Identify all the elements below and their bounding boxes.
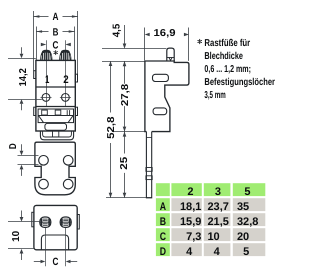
side slot upper [153, 74, 169, 81]
divider below screws [36, 106, 75, 108]
table row A [156, 198, 170, 211]
screw circle left [42, 94, 50, 102]
divider above screws [36, 86, 75, 88]
table row D [156, 243, 170, 256]
svg-text:,7: ,7 [220, 201, 229, 213]
plate outline [35, 142, 75, 195]
bottom view U cutout [41, 235, 68, 250]
svg-text:15: 15 [180, 216, 192, 228]
clamp diagonals [38, 115, 73, 123]
clamp band line [38, 115, 73, 117]
svg-text:2: 2 [63, 74, 68, 86]
svg-text:35: 35 [237, 201, 249, 213]
svg-text:C: C [160, 231, 166, 243]
extension line strip bottom [106, 197, 152, 199]
svg-text:C: C [52, 256, 58, 268]
bottom view tab left [32, 212, 34, 227]
plate hole bottom-left [39, 179, 49, 189]
svg-text:3,5 mm: 3,5 mm [204, 90, 225, 101]
svg-text:C: C [53, 40, 59, 52]
svg-text:2: 2 [187, 186, 193, 198]
extension line profile top [102, 61, 145, 63]
plate hole top-left [39, 156, 49, 166]
svg-text:1: 1 [45, 74, 49, 86]
svg-text:10: 10 [11, 230, 22, 242]
svg-text:,1: ,1 [192, 201, 201, 213]
clamp cushion [45, 123, 67, 130]
front tab left mid [34, 107, 36, 115]
dimension B [36, 27, 38, 61]
front tab right upper [75, 74, 77, 82]
dimension C top [41, 43, 47, 47]
table header row [156, 183, 170, 196]
dimension 25 [124, 132, 126, 154]
front tail notch [53, 131, 59, 137]
svg-text:18: 18 [180, 201, 192, 213]
svg-text:10: 10 [207, 231, 219, 243]
svg-text:4: 4 [214, 246, 221, 258]
latch foot right front [59, 50, 71, 61]
dimension A [33, 11, 35, 71]
clamp window mid [55, 110, 61, 115]
svg-text:A: A [160, 201, 166, 213]
front tail inner line [43, 131, 72, 137]
clamp inner rect [38, 109, 73, 123]
side slot lower [153, 108, 167, 115]
svg-text:0,6 ... 1,2 mm;: 0,6 ... 1,2 mm; [204, 64, 251, 75]
side strip [146, 132, 151, 198]
svg-text:,5: ,5 [220, 216, 229, 228]
bottom view tab right [77, 215, 79, 230]
svg-text:25: 25 [119, 156, 130, 170]
dimension 27,8 [124, 61, 126, 84]
svg-text:Rastfüße für: Rastfüße für [204, 38, 250, 49]
svg-text:4,5: 4,5 [112, 23, 123, 37]
svg-text:5: 5 [243, 246, 249, 258]
svg-text:Blechdicke: Blechdicke [204, 51, 243, 62]
table row C [156, 228, 170, 241]
dimension 4,5 [102, 48, 166, 50]
table row B [156, 213, 170, 226]
svg-text:,9: ,9 [192, 216, 201, 228]
svg-text:20: 20 [237, 231, 249, 243]
dimension 16,9 [144, 28, 146, 61]
svg-text:A: A [53, 11, 59, 23]
extension line wide bottom [112, 131, 146, 133]
latch foot left front [40, 50, 52, 61]
svg-text:32: 32 [237, 216, 249, 228]
asterisk marker [54, 51, 58, 55]
svg-text:23: 23 [207, 201, 219, 213]
svg-text:,3: ,3 [192, 231, 201, 243]
plate hole top-right [63, 156, 73, 166]
front tail outline [40, 131, 73, 140]
svg-text:D: D [8, 143, 19, 149]
svg-text:B: B [53, 26, 59, 38]
dimension D [18, 155, 39, 157]
bottom view outline [34, 205, 77, 249]
bottom foot circle right [60, 217, 71, 227]
screw circle right [62, 94, 70, 102]
bottom foot circle left [40, 217, 51, 227]
svg-text:D: D [160, 246, 166, 258]
clamp window left [42, 110, 48, 115]
side profile outline [145, 61, 189, 132]
front tab right mid [75, 107, 77, 115]
svg-text:21: 21 [207, 216, 219, 228]
dimension 52,8 [110, 61, 112, 113]
front tab left upper [34, 71, 36, 79]
svg-text:14,2: 14,2 [18, 68, 29, 87]
svg-text:52,8: 52,8 [106, 116, 117, 139]
svg-text:16,9: 16,9 [154, 28, 176, 39]
svg-text:Befestigungslöcher: Befestigungslöcher [204, 77, 275, 88]
plate hole bottom-right [63, 179, 73, 189]
feet center lines [46, 40, 48, 106]
front body outline [36, 60, 75, 131]
svg-text:27,8: 27,8 [120, 83, 131, 106]
svg-text:,8: ,8 [249, 216, 258, 228]
clamp window right tick [67, 110, 69, 115]
footnote asterisk [198, 39, 202, 43]
svg-text:3: 3 [215, 186, 221, 198]
dimension C bottom [45, 228, 47, 266]
svg-text:5: 5 [244, 186, 250, 198]
svg-text:4: 4 [186, 246, 193, 258]
dimension 10 [8, 221, 40, 223]
side view latch foot [167, 48, 174, 61]
dimension 14,2 [8, 58, 36, 60]
svg-text:B: B [160, 216, 166, 228]
